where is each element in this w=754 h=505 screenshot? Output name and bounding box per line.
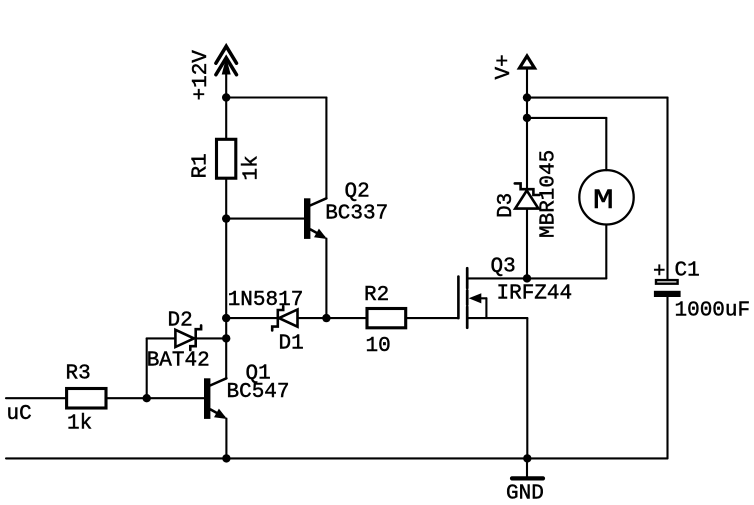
wire C1 top bbox=[666, 98, 668, 279]
junction dot D2 node bbox=[222, 334, 230, 342]
svg-text:IRFZ44: IRFZ44 bbox=[497, 283, 573, 306]
junction dot R3/D2/base bbox=[143, 394, 151, 402]
motor M bbox=[579, 170, 633, 224]
svg-text:Q2: Q2 bbox=[345, 181, 370, 204]
svg-text:+12V: +12V bbox=[190, 50, 213, 101]
ground symbol bbox=[512, 458, 543, 478]
diode D1 1N5817 (schottky, cathode left) bbox=[272, 306, 297, 330]
junction dot V+/motor bbox=[523, 114, 531, 122]
wire Q3 source down bbox=[526, 318, 528, 458]
junction dot R1/Q2 base bbox=[222, 214, 230, 222]
junction dot source/GND bbox=[523, 454, 531, 462]
wire top-left horizontal bbox=[226, 96, 326, 98]
svg-text:V+: V+ bbox=[493, 54, 516, 79]
diode D2 BAT42 (schottky, cathode right) bbox=[175, 325, 201, 350]
power flag V+ bbox=[520, 56, 535, 189]
wire C1 bottom bbox=[666, 297, 668, 458]
wire D3 anode to drain node bbox=[526, 209, 528, 279]
mosfet Q3 bbox=[458, 268, 606, 328]
svg-text:1N5817: 1N5817 bbox=[228, 289, 304, 312]
junction dot Q2 emitter / D1 / R2 bbox=[322, 314, 330, 322]
junction dot Q1 emitter on rail bbox=[222, 454, 230, 462]
wire V+ to motor branch bbox=[527, 117, 606, 119]
svg-text:BAT42: BAT42 bbox=[147, 350, 210, 373]
transistor Q1 bbox=[204, 378, 227, 419]
resistor R2 bbox=[367, 309, 406, 328]
svg-text:GND: GND bbox=[506, 483, 544, 505]
wire R2 to gate bbox=[406, 317, 459, 319]
svg-text:D2: D2 bbox=[168, 310, 193, 333]
wire uC input bbox=[6, 397, 67, 399]
junction dot drain node bbox=[523, 274, 531, 282]
svg-text:10: 10 bbox=[366, 335, 391, 358]
svg-text:1k: 1k bbox=[241, 155, 264, 180]
junction dot at D1 left bbox=[222, 314, 230, 322]
svg-text:C1: C1 bbox=[675, 260, 700, 283]
wire D2 cathode to node bbox=[196, 337, 226, 339]
wire Q2 emitter down bbox=[325, 239, 327, 319]
wire D2 anode left bbox=[147, 337, 176, 339]
svg-text:R2: R2 bbox=[364, 284, 389, 307]
svg-text:uC: uC bbox=[7, 403, 32, 426]
wire R1 bottom to Q1 collector bbox=[225, 178, 227, 378]
svg-text:1000uF: 1000uF bbox=[675, 300, 751, 323]
wire D1 anode to node bbox=[298, 317, 327, 319]
diode D3 MBR1045 (schottky, cathode up) bbox=[515, 183, 539, 208]
svg-text:1k: 1k bbox=[67, 413, 92, 436]
svg-text:R1: R1 bbox=[190, 153, 213, 178]
wire R3 to Q1 base bbox=[106, 397, 204, 399]
wire R2 left bbox=[326, 317, 367, 319]
svg-text:D1: D1 bbox=[279, 333, 304, 356]
resistor R3 bbox=[67, 389, 106, 409]
wire D2 down to base node bbox=[146, 338, 148, 398]
capacitor C1 bbox=[654, 280, 681, 297]
wire Q2 base bbox=[226, 218, 304, 220]
svg-text:BC337: BC337 bbox=[325, 203, 388, 226]
wire Q1 emitter down bbox=[225, 419, 227, 459]
wire +12V to R1 bbox=[225, 98, 227, 140]
resistor R1 bbox=[217, 139, 236, 178]
svg-text:BC547: BC547 bbox=[227, 381, 290, 404]
svg-text:R3: R3 bbox=[66, 363, 91, 386]
wire node to D1 cathode bbox=[226, 317, 278, 319]
svg-text:M: M bbox=[593, 186, 614, 217]
junction dot V+/C1 bbox=[523, 93, 531, 101]
junction dot at +12V node bbox=[222, 93, 230, 101]
svg-text:MBR1045: MBR1045 bbox=[538, 150, 561, 238]
svg-text:D3: D3 bbox=[495, 193, 518, 218]
wire Q2 collector vertical bbox=[325, 98, 327, 199]
wire motor bottom bbox=[605, 225, 607, 279]
wire motor top bbox=[605, 118, 607, 170]
bottom GND rail bbox=[6, 457, 668, 459]
power flag +12V bbox=[216, 46, 237, 97]
svg-text:+: + bbox=[653, 261, 666, 284]
transistor Q2 bbox=[304, 198, 327, 239]
wire V+ to C1 bbox=[527, 97, 668, 99]
svg-text:Q3: Q3 bbox=[491, 256, 516, 279]
